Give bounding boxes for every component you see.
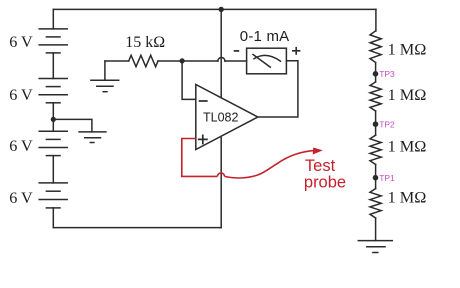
svg-text:1 MΩ: 1 MΩ [388, 188, 427, 207]
svg-text:TP1: TP1 [379, 173, 395, 183]
svg-text:TL082: TL082 [203, 111, 238, 125]
svg-text:6 V: 6 V [9, 137, 33, 155]
svg-text:1 MΩ: 1 MΩ [388, 40, 427, 59]
svg-text:15 kΩ: 15 kΩ [125, 34, 165, 51]
svg-text:probe: probe [304, 173, 346, 191]
svg-text:6 V: 6 V [9, 33, 33, 51]
svg-text:1 MΩ: 1 MΩ [388, 137, 427, 156]
svg-text:TP2: TP2 [379, 120, 395, 130]
svg-text:Test: Test [305, 157, 336, 175]
svg-text:0-1 mA: 0-1 mA [240, 28, 290, 45]
svg-text:6 V: 6 V [9, 189, 33, 207]
svg-text:1 MΩ: 1 MΩ [388, 85, 427, 104]
svg-text:TP3: TP3 [379, 69, 395, 79]
svg-text:6 V: 6 V [9, 86, 33, 104]
